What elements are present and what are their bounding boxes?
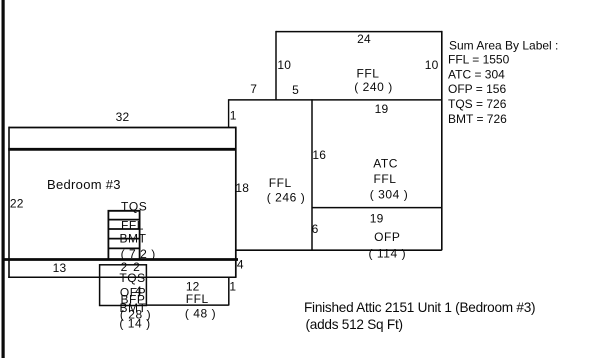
wire: bedroom rect top edge — [9, 127, 236, 129]
svg-text:13: 13 — [53, 261, 67, 275]
svg-text:( 246 ): ( 246 ) — [267, 191, 306, 205]
svg-text:( 304 ): ( 304 ) — [370, 188, 409, 202]
svg-text:6: 6 — [312, 222, 319, 236]
wire: ATC left vertical x=312 — [311, 99, 313, 250]
wall: thick bedroom bottom line — [3, 258, 238, 261]
stairs tread 3 — [108, 228, 141, 230]
stairs tread 4 — [108, 238, 141, 240]
svg-text:FFL: FFL — [357, 67, 380, 81]
svg-text:OFP = 156: OFP = 156 — [448, 82, 506, 96]
svg-text:10: 10 — [277, 58, 291, 72]
svg-text:( 14 ): ( 14 ) — [119, 317, 150, 331]
svg-text:1: 1 — [230, 109, 237, 123]
wire: lower strip bottom edge — [8, 276, 236, 278]
small box (2x2 area) outline — [100, 265, 147, 306]
svg-text:( 48 ): ( 48 ) — [185, 306, 216, 320]
wall: thick interior line under top strip — [8, 148, 236, 151]
svg-text:BMT: BMT — [120, 231, 147, 245]
svg-text:FFL: FFL — [121, 218, 144, 232]
wire: step vertical x=228.6 — [228, 99, 230, 128]
room FFL(240) rect left edge — [275, 31, 277, 100]
box FFL(48) right edge — [228, 277, 230, 305]
box FFL(48) top edge — [146, 276, 235, 278]
svg-text:10: 10 — [425, 58, 439, 72]
stairs tread 2 — [108, 219, 141, 221]
svg-text:(adds 512 Sq Ft): (adds 512 Sq Ft) — [306, 317, 403, 332]
room FFL(240) rect top edge — [276, 31, 442, 33]
wire: bedroom rect right edge — [235, 127, 237, 278]
svg-text:24: 24 — [357, 32, 371, 46]
svg-text:Bedroom #3: Bedroom #3 — [47, 177, 121, 192]
svg-text:FFL: FFL — [374, 172, 397, 186]
svg-text:ATC: ATC — [373, 157, 398, 171]
stairs tread 1 — [108, 210, 141, 212]
svg-text:1: 1 — [229, 280, 236, 294]
svg-text:( 114 ): ( 114 ) — [368, 246, 406, 260]
stairs symbol right rail — [139, 211, 141, 260]
stairs tread 5 — [108, 247, 141, 249]
svg-text:OFP: OFP — [374, 230, 400, 244]
svg-text:18: 18 — [235, 181, 249, 195]
wire: bottom line y=250 — [236, 249, 442, 251]
svg-text:19: 19 — [370, 212, 384, 226]
svg-text:TQS: TQS — [119, 271, 145, 285]
svg-text:Finished Attic 2151 Unit 1 (Be: Finished Attic 2151 Unit 1 (Bedroom #3) — [304, 300, 535, 315]
svg-text:16: 16 — [312, 148, 326, 162]
svg-text:( 240 ): ( 240 ) — [354, 80, 393, 94]
svg-text:TQS = 726: TQS = 726 — [448, 97, 507, 111]
svg-text:FFL: FFL — [269, 176, 292, 190]
stairs symbol left rail — [107, 211, 109, 260]
wire: long right vertical edge — [441, 31, 443, 250]
svg-text:Sum Area By Label :: Sum Area By Label : — [449, 38, 558, 52]
svg-text:7: 7 — [250, 82, 257, 96]
svg-text:32: 32 — [116, 110, 130, 124]
wire: ATC/OFP divider — [312, 207, 442, 209]
svg-text:BMT = 726: BMT = 726 — [448, 112, 507, 126]
svg-text:TQS: TQS — [121, 200, 147, 214]
wire: bedroom rect left edge — [8, 127, 10, 278]
svg-text:FFL = 1550: FFL = 1550 — [448, 53, 510, 67]
svg-text:19: 19 — [375, 102, 389, 116]
box FFL(48) bottom edge — [146, 304, 228, 306]
svg-text:FFL: FFL — [186, 292, 209, 306]
wire: horizontal line y=100 — [229, 99, 442, 101]
svg-text:22: 22 — [10, 197, 24, 211]
svg-text:ATC = 304: ATC = 304 — [448, 67, 505, 81]
svg-text:4: 4 — [237, 257, 244, 271]
svg-text:5: 5 — [292, 83, 299, 97]
left page border bar — [2, 0, 5, 358]
